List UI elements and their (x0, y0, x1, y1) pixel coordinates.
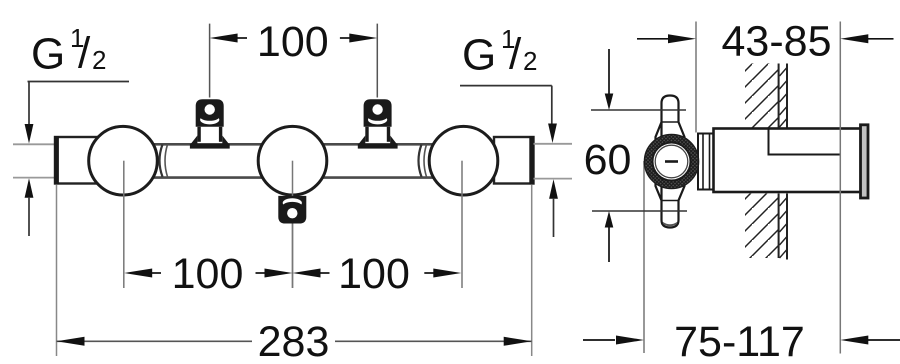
bracket arm bottom (side view) (656, 178, 685, 228)
extension line 75-117 left (from hub tangent) (643, 161, 645, 353)
dimension 100 top: arrows and tails (210, 34, 238, 43)
dimension 60: extension lines (591, 110, 687, 211)
mounting bracket C (bottom of ball 2) (278, 196, 306, 224)
extension line from ball 3 center (461, 161, 463, 288)
dimension 100 bottom-right: arrows (293, 269, 321, 278)
extension line from ball 1 center (123, 161, 125, 288)
neck between hub and body (698, 134, 714, 190)
wire left inlet stub top edge (13, 143, 56, 145)
extension line 43-85 left (695, 22, 697, 133)
svg-text:2: 2 (523, 46, 537, 76)
right end cap G1/2 union (494, 136, 534, 185)
socket arc right of ball 1 (160, 145, 163, 177)
ball union 1 (89, 126, 158, 195)
bracket arm top (side view) (656, 96, 685, 146)
extension line shared right (43-85 and 75-117) (839, 22, 841, 354)
wire left inlet stub bottom edge (13, 177, 56, 179)
svg-text:G: G (462, 31, 496, 80)
dimension 283: extension lines (57, 185, 532, 356)
wire right outlet stub top edge (534, 143, 573, 145)
arrow up to stub bottom (right) (549, 179, 558, 199)
valve body (side view) (714, 129, 862, 193)
svg-text:100: 100 (172, 250, 244, 298)
svg-text:/: / (509, 30, 522, 79)
leader line G1/2 right (460, 86, 552, 125)
label G 1/2 left (31, 23, 106, 79)
svg-text:2: 2 (92, 45, 106, 75)
svg-text:60: 60 (584, 136, 632, 184)
svg-text:G: G (31, 30, 65, 79)
dimension 283: line and arrows (57, 340, 532, 342)
svg-text:43-85: 43-85 (722, 18, 832, 66)
socket arc left of ball 3 (419, 145, 422, 177)
ball union 3 (429, 126, 498, 195)
arrow down to stub top (left) (25, 124, 34, 144)
extension line from bracket C down (292, 224, 294, 289)
pipe main body edges (90, 144, 500, 177)
left end cap G1/2 union (55, 136, 97, 185)
svg-text:75-117: 75-117 (674, 318, 805, 364)
dimension 60: top arrow (608, 49, 610, 95)
flange at right end (861, 125, 869, 198)
extension line from ball 2 center (292, 161, 294, 288)
label G 1/2 right (462, 24, 537, 80)
svg-text:/: / (78, 29, 91, 78)
dimension 75-117: arrows and tails (583, 339, 615, 341)
dimension 43-85: arrows and tails (637, 38, 669, 40)
wall hatching top segment (745, 64, 787, 128)
arrow up to stub bottom (left) (25, 178, 34, 198)
dimension 100 bottom-left: arrows (124, 269, 152, 278)
ball union 2 (258, 126, 327, 195)
mounting bracket A (top left) (190, 99, 230, 148)
mounting bracket B (top right) (358, 99, 398, 148)
arrow down to stub top (right) (548, 124, 557, 144)
svg-text:283: 283 (258, 318, 330, 364)
dimension 100 top: extension lines (210, 24, 378, 98)
dimension 60: bottom arrow (605, 211, 614, 228)
hub (valve cartridge end view) (645, 135, 698, 188)
svg-text:100: 100 (338, 250, 410, 298)
svg-text:100: 100 (257, 18, 329, 66)
wire right outlet stub bottom edge (534, 178, 573, 180)
wall hatching bottom segment (745, 194, 787, 260)
leader line G1/2 left (28, 82, 130, 127)
